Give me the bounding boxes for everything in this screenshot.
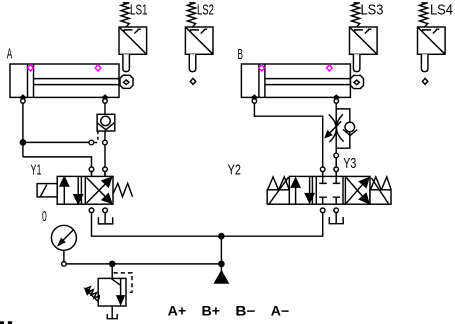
- label B+: [202, 304, 221, 319]
- node Y1 port T bottom: [103, 208, 108, 213]
- limit switch LS4: [418, 3, 446, 85]
- state marker cylinder B piston: [259, 65, 265, 71]
- svg-text:A+: A+: [168, 304, 187, 319]
- svg-text:0: 0: [42, 208, 47, 225]
- label LS2: [197, 2, 214, 19]
- wire pressure bus: [92, 213, 323, 237]
- wire source riser: [220, 236, 222, 264]
- Y2 up arrow: [291, 178, 300, 204]
- spring Y1: [113, 183, 133, 196]
- solenoid Y1: [37, 184, 57, 197]
- Y2 center blocked ports: [319, 176, 340, 204]
- label B: [238, 46, 244, 63]
- relief valve inlet: [111, 267, 113, 279]
- wire cylinder B left port down: [254, 97, 322, 174]
- state marker cylinder B rod: [327, 65, 333, 71]
- op valve Y1 body: [57, 176, 113, 204]
- Y1 cross arrow 2: [87, 178, 112, 204]
- node flow control bottom: [334, 153, 339, 158]
- label A-: [271, 304, 290, 319]
- svg-text:LS2: LS2: [197, 2, 214, 19]
- relief valve drain: [111, 306, 113, 318]
- op valve Y2 body: [289, 176, 370, 204]
- Y2 port line B: [335, 158, 337, 177]
- svg-text:B−: B−: [235, 304, 255, 319]
- node pilot right on A line: [103, 140, 108, 145]
- label LS3: [361, 2, 384, 19]
- node Y2 port B top: [334, 167, 339, 172]
- svg-text:B+: B+: [202, 304, 221, 319]
- label B-: [235, 304, 255, 319]
- wire cylinder A right port down: [104, 97, 106, 176]
- limit switch LS1: [119, 3, 147, 72]
- Y2 port line A: [322, 167, 324, 177]
- throttle adjust arrow: [325, 121, 341, 137]
- relief valve tank symbol: [107, 314, 117, 319]
- Y1 up arrow: [60, 177, 69, 204]
- label Y3: [343, 155, 356, 172]
- junction bus: [219, 234, 224, 239]
- Y1 exhaust line: [104, 213, 106, 224]
- Y2 left spring solenoid: [267, 177, 289, 204]
- node gauge: [62, 262, 67, 267]
- Y1 cross arrow 1: [87, 177, 112, 203]
- svg-text:Y3: Y3: [343, 155, 356, 172]
- check valve poppet circle: [101, 116, 110, 125]
- relief valve spring: [85, 287, 100, 300]
- Y1 port line B: [104, 167, 106, 177]
- flow control bypass: [336, 109, 350, 148]
- wire gauge bus: [66, 263, 221, 265]
- wire pilot horizontal: [25, 141, 89, 143]
- svg-text:LS1: LS1: [130, 2, 148, 19]
- svg-text:B: B: [238, 46, 244, 63]
- Y2 cross arrow 2: [346, 178, 369, 204]
- flow control check seat: [343, 129, 357, 135]
- relief valve body: [98, 278, 126, 306]
- svg-text:LS4: LS4: [430, 2, 453, 19]
- node Y1 port P bottom: [89, 208, 94, 213]
- check valve body: [97, 114, 115, 131]
- roller cam cylinder A rod end: [120, 75, 133, 88]
- node Y2 port A top: [320, 167, 325, 172]
- svg-text:A: A: [7, 46, 13, 63]
- state marker cylinder A rod: [95, 65, 101, 71]
- Y2 cross arrow 1: [346, 178, 369, 204]
- limit switch LS2: [185, 3, 213, 85]
- node cylinder B left port: [252, 95, 257, 103]
- svg-text:LS3: LS3: [361, 2, 384, 19]
- label Y2: [228, 161, 241, 178]
- node cylinder B right port: [334, 95, 339, 103]
- node cylinder A right port: [102, 95, 107, 103]
- pilot dashed line: [94, 131, 98, 142]
- Y2 exhaust symbol: [329, 217, 343, 224]
- svg-text:Y2: Y2: [228, 161, 241, 178]
- corner watermark marks: [1, 322, 12, 324]
- node Y1 port A top: [89, 167, 94, 172]
- svg-text:A−: A−: [271, 304, 290, 319]
- wire cylinder B right port down: [335, 97, 337, 176]
- Y1 exhaust symbol: [98, 217, 112, 224]
- Y2 exhaust line: [335, 213, 337, 224]
- label A+: [168, 304, 187, 319]
- relief valve pilot dashed: [114, 273, 133, 292]
- junction relief: [110, 261, 115, 266]
- relief valve adjust arrow: [85, 289, 98, 302]
- label A: [7, 46, 13, 63]
- Y1 port line A: [91, 167, 93, 177]
- cylinder A body: [10, 64, 119, 97]
- pressure gauge: [51, 225, 76, 262]
- flow control check circle: [345, 122, 355, 132]
- Y2 right spring solenoid: [370, 177, 391, 204]
- junction source: [219, 261, 224, 266]
- label Y1: [31, 162, 42, 179]
- svg-text:Y1: Y1: [31, 162, 42, 179]
- throttle arcs: [329, 114, 344, 142]
- state marker cylinder A piston: [28, 65, 34, 71]
- node Y2 port P bottom: [320, 208, 325, 213]
- node pilot left: [89, 140, 94, 145]
- junction A pilot: [20, 140, 25, 145]
- label LS1: [130, 2, 148, 19]
- roller cam cylinder B rod end: [351, 75, 364, 88]
- node cylinder A left port: [20, 95, 25, 103]
- label 0: [42, 208, 47, 225]
- Y1 down arrow: [74, 176, 83, 203]
- limit switch LS3: [350, 3, 378, 72]
- label LS4: [430, 2, 453, 19]
- node Y2 port T bottom: [334, 208, 339, 213]
- cylinder B body: [241, 64, 350, 97]
- compressed air source: [215, 264, 228, 283]
- Y2 down arrow: [305, 176, 314, 202]
- wire cylinder A left port down: [22, 97, 24, 156]
- relief valve flow arrow: [112, 278, 125, 304]
- wire A left to valve Y1 port A: [23, 157, 92, 175]
- node Y1 port B top: [103, 167, 108, 172]
